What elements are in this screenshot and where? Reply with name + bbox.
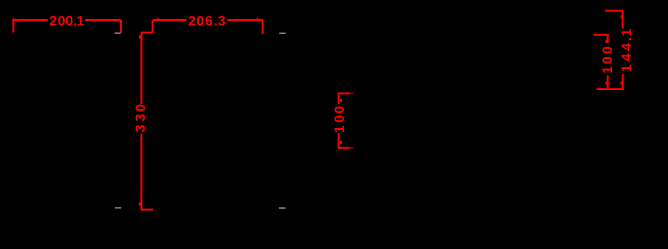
dimension D4 top tick — [340, 99, 342, 102]
dimension D3 top extension line — [141, 32, 154, 34]
svg-text:0: 0 — [132, 104, 148, 112]
dimension D3 top tick — [139, 35, 141, 38]
svg-text:6: 6 — [205, 13, 213, 29]
dimension D4 bottom extension line — [338, 147, 350, 149]
dimension D5 text 100 (rotated) — [599, 46, 615, 74]
dimension D5 top extension line — [593, 34, 609, 36]
dimension D2 left extension line — [152, 20, 154, 32]
svg-text:0: 0 — [331, 106, 347, 114]
svg-text:0: 0 — [65, 13, 73, 29]
dimension D6 144.1 dim line upper segment — [622, 11, 624, 29]
dimension D6 top extension line — [605, 10, 624, 12]
dimension D3 text 330 (rotated) — [132, 104, 148, 133]
dimension D2 right extension line — [262, 20, 264, 34]
dimension D4 100 middle dim line upper segment — [338, 93, 340, 104]
dimension D2 right tick — [256, 18, 259, 21]
svg-text:2: 2 — [188, 13, 196, 29]
svg-text:0: 0 — [58, 13, 66, 29]
dimension D1 left tick — [16, 19, 20, 21]
dimension D2 206.3 dim line left segment — [153, 19, 187, 21]
svg-text:3: 3 — [218, 13, 226, 29]
dimension D6 top tick — [621, 15, 623, 18]
dimension D4 bottom tick — [340, 141, 342, 144]
svg-text:0: 0 — [599, 46, 615, 54]
geometry gray dash bottom-left — [115, 207, 122, 208]
dimension D4 text 100 (rotated) — [331, 106, 347, 134]
svg-text:4: 4 — [618, 53, 634, 61]
dimension D5/D6 shared bottom extension line — [596, 88, 624, 90]
dimension D6 text 144.1 (rotated) — [618, 28, 634, 72]
dimension D1 right extension line — [120, 20, 122, 33]
dimension D4 bottom extension line faded tail — [350, 147, 354, 149]
dimension D5 100 right dim line lower segment — [607, 76, 609, 90]
svg-text:1: 1 — [331, 125, 347, 133]
dimension D4 top extension line — [338, 92, 350, 94]
svg-text:1: 1 — [599, 66, 615, 74]
dimension D4 100 middle dim line lower segment — [338, 133, 340, 148]
svg-text:1: 1 — [618, 64, 634, 72]
dimension D3 bottom tick — [139, 202, 141, 205]
svg-text:3: 3 — [132, 113, 148, 121]
dimension D1 left extension line — [12, 18, 14, 32]
dimension D5 100 right dim line upper segment — [607, 35, 609, 43]
dimension D2 206.3 dim line right segment — [227, 19, 263, 21]
svg-text:4: 4 — [618, 43, 634, 51]
svg-text:0: 0 — [196, 13, 204, 29]
svg-text:2: 2 — [49, 13, 57, 29]
dimension D1 200.1 dim line right segment — [85, 19, 121, 21]
svg-text:.: . — [618, 37, 634, 41]
geometry gray dash top-left — [115, 33, 121, 34]
svg-text:0: 0 — [331, 115, 347, 123]
svg-text:1: 1 — [618, 28, 634, 36]
dimension D1 text 200.1 — [49, 13, 84, 29]
svg-text:1: 1 — [77, 13, 85, 29]
dimension D3 330 dim line upper segment — [140, 33, 142, 105]
svg-text:3: 3 — [132, 124, 148, 132]
dimension D3 bottom extension line — [141, 209, 154, 211]
dimension D5 top tick — [606, 40, 608, 43]
dimension D1 200.1 dim line left segment — [13, 19, 48, 21]
dimension D1 right tick — [114, 19, 117, 21]
dimension D5 bottom tick — [606, 82, 608, 85]
dimension D4 top extension line faded tail — [350, 92, 354, 94]
dimension D2 text 206.3 — [188, 13, 226, 29]
dimension D3 330 dim line lower segment — [140, 134, 142, 210]
svg-text:0: 0 — [599, 56, 615, 64]
dimension D6 bottom tick — [621, 82, 623, 85]
dimension D2 left tick — [157, 18, 160, 21]
dimension D6 144.1 dim line lower segment — [622, 74, 624, 89]
geometry gray dash bottom-right — [279, 207, 286, 208]
geometry gray dash top-right — [279, 33, 286, 34]
